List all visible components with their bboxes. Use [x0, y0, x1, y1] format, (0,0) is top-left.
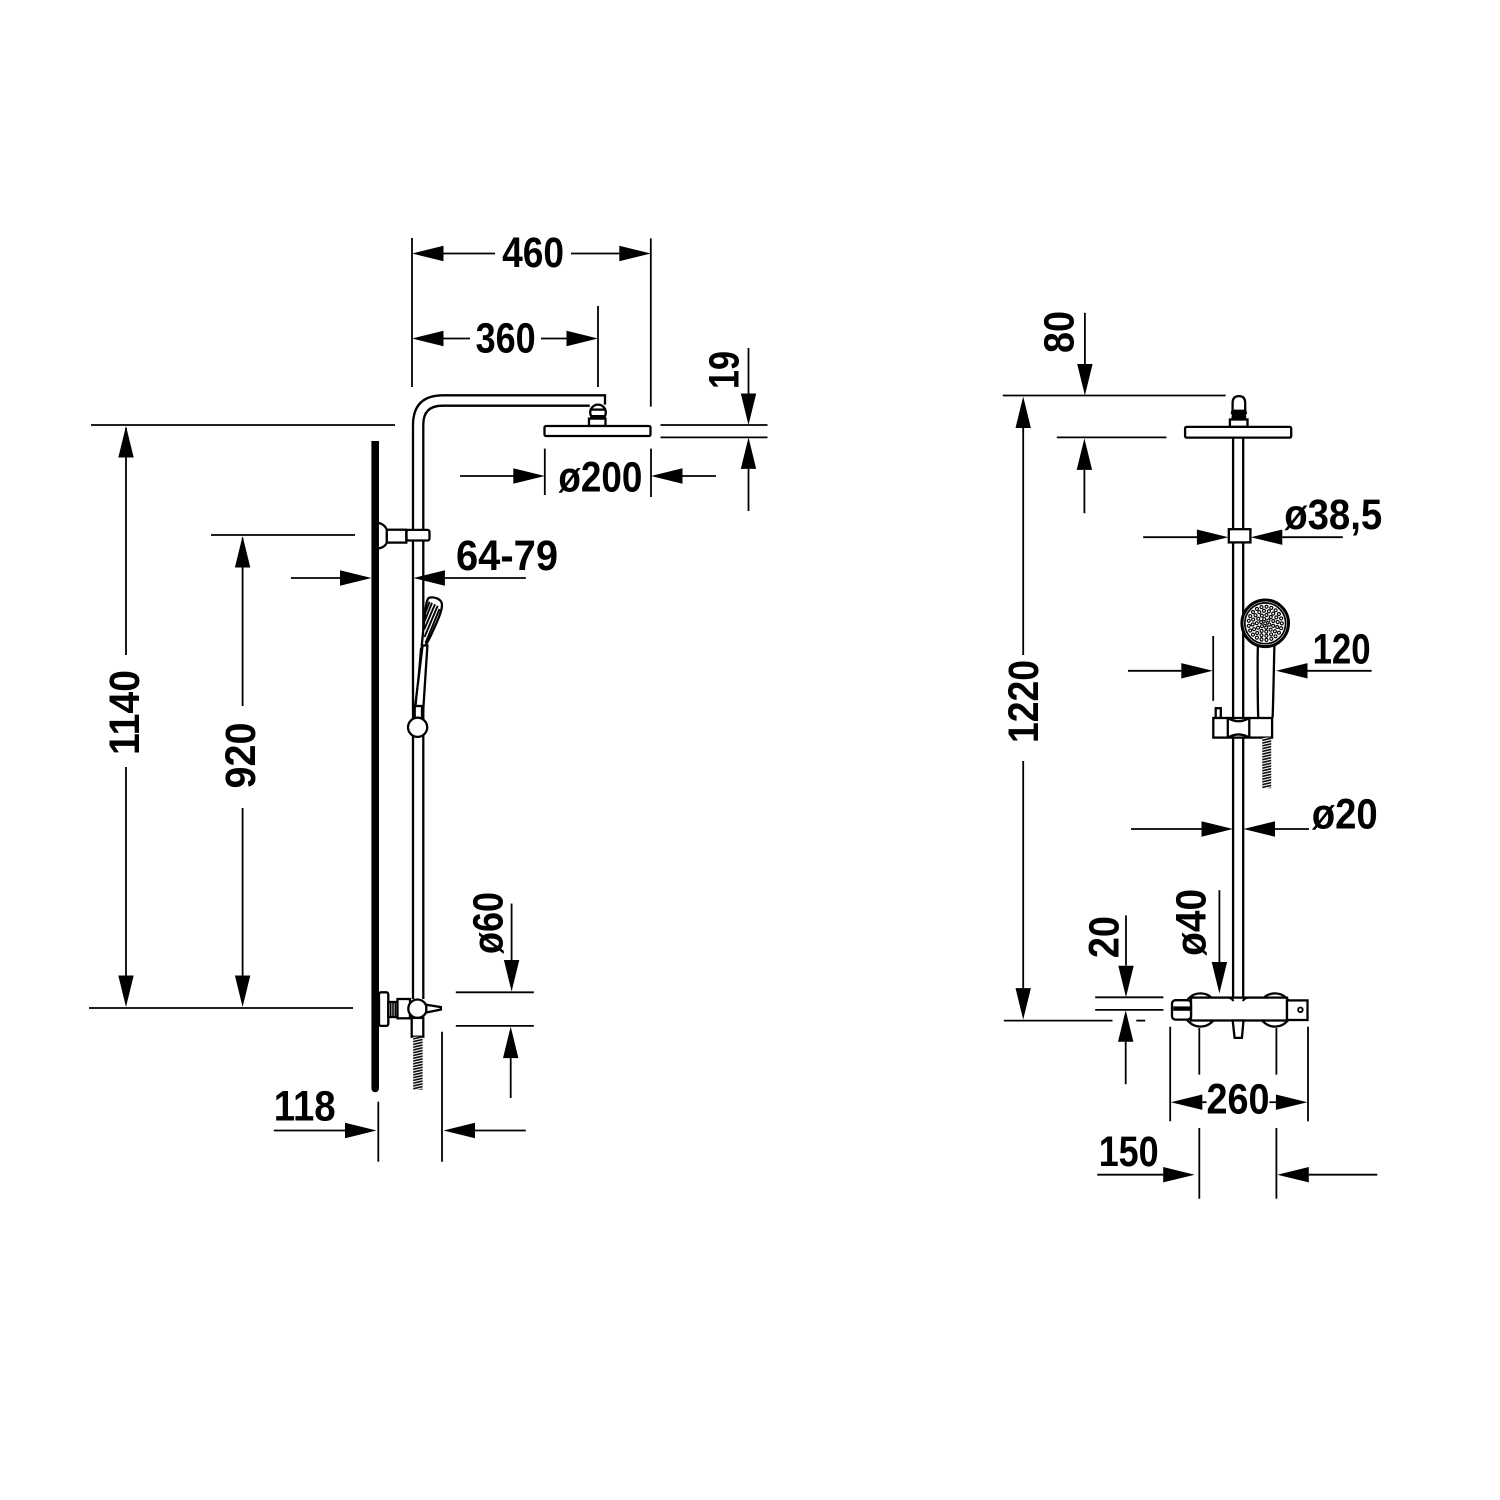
riser column (front view)	[1233, 438, 1243, 999]
dimension 120	[1128, 627, 1372, 701]
dimension 118	[274, 1032, 526, 1162]
dimension 1140	[89, 425, 395, 1008]
slider ring ø38,5 (front view)	[1229, 529, 1251, 542]
dimension 920	[211, 535, 355, 1007]
slider stub (side view)	[415, 706, 422, 718]
svg-text:ø20: ø20	[1312, 792, 1378, 839]
svg-text:360: 360	[476, 316, 536, 363]
hand shower handle (side view)	[415, 646, 428, 711]
dimension ø60	[456, 892, 534, 1098]
ball joint of overhead shower (side view)	[589, 405, 606, 426]
svg-text:1220: 1220	[1001, 660, 1048, 743]
overhead shower head plate (side view)	[545, 426, 651, 436]
shower riser pipe with top arm (side view)	[413, 395, 605, 999]
svg-text:120: 120	[1313, 627, 1371, 674]
slider knob (side view)	[408, 718, 427, 737]
svg-text:ø60: ø60	[466, 892, 513, 954]
wall (side view)	[371, 441, 379, 1088]
dimension 80	[1003, 311, 1226, 513]
svg-text:ø38,5: ø38,5	[1284, 492, 1382, 539]
dimension ø38,5	[1143, 492, 1382, 545]
hand shower head blade (side view, hatched)	[422, 597, 442, 647]
overhead shower head plate (front view)	[1185, 427, 1291, 438]
svg-text:118: 118	[274, 1084, 336, 1131]
shower hose (side view, ribbed)	[413, 1037, 422, 1090]
dimension 20 (valve offset)	[1082, 915, 1164, 1084]
upper wall bracket (side view)	[378, 523, 430, 549]
dimension 19 (head thickness)	[661, 348, 768, 511]
dimension 1220	[1001, 397, 1145, 1021]
dimension ø20	[1131, 792, 1378, 839]
hand shower handle (front view)	[1258, 646, 1275, 718]
svg-text:920: 920	[218, 723, 265, 789]
hand shower head (front view)	[1242, 600, 1289, 647]
svg-text:260: 260	[1207, 1077, 1270, 1124]
svg-text:460: 460	[502, 230, 564, 277]
slider holder bracket (front view)	[1213, 708, 1272, 737]
svg-text:64-79: 64-79	[456, 533, 558, 580]
dimension 64-79	[291, 533, 558, 586]
dimension 360	[412, 306, 598, 387]
svg-text:150: 150	[1099, 1129, 1159, 1176]
dimension 260	[1170, 1027, 1308, 1124]
thermostat valve (front view)	[1172, 993, 1308, 1038]
dimension 460	[412, 230, 651, 407]
dimension ø200	[460, 449, 716, 502]
dimension 150	[1097, 1028, 1377, 1199]
svg-text:19: 19	[702, 351, 749, 389]
thermostat valve (side view)	[379, 992, 441, 1036]
dimension ø40	[1169, 889, 1228, 994]
svg-text:ø200: ø200	[558, 455, 642, 502]
svg-text:80: 80	[1037, 311, 1084, 353]
svg-text:1140: 1140	[102, 670, 149, 755]
svg-text:ø40: ø40	[1169, 889, 1216, 956]
svg-text:20: 20	[1082, 916, 1129, 958]
top ball knob (front view)	[1230, 396, 1248, 427]
shower hose (front view, ribbed)	[1262, 738, 1271, 789]
